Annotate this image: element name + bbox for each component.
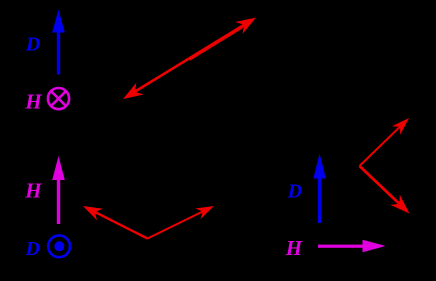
- vector D arrow (top-left, blue, upward): [52, 10, 65, 75]
- svg-text:H: H: [285, 236, 303, 260]
- vector H arrow (bottom-left, magenta, upward): [52, 156, 65, 224]
- vector H arrow (bottom-right, magenta, rightward): [318, 240, 386, 253]
- ray pair: reflected V arrows (red, bottom-middle): [83, 206, 214, 239]
- vector D arrow (bottom-right, blue, upward): [313, 154, 326, 224]
- svg-text:D: D: [25, 34, 40, 56]
- svg-text:D: D: [25, 238, 40, 260]
- symbol H into-page (circle with X, magenta): [48, 88, 69, 109]
- symbol D out-of-page (circle with dot, blue): [48, 235, 70, 257]
- svg-text:D: D: [287, 181, 302, 203]
- svg-text:H: H: [24, 90, 42, 114]
- ray pair: transmitted arrows (red, right side): [360, 118, 410, 214]
- ray: incident double arrow (red, diagonal): [123, 18, 256, 100]
- svg-text:H: H: [24, 179, 42, 203]
